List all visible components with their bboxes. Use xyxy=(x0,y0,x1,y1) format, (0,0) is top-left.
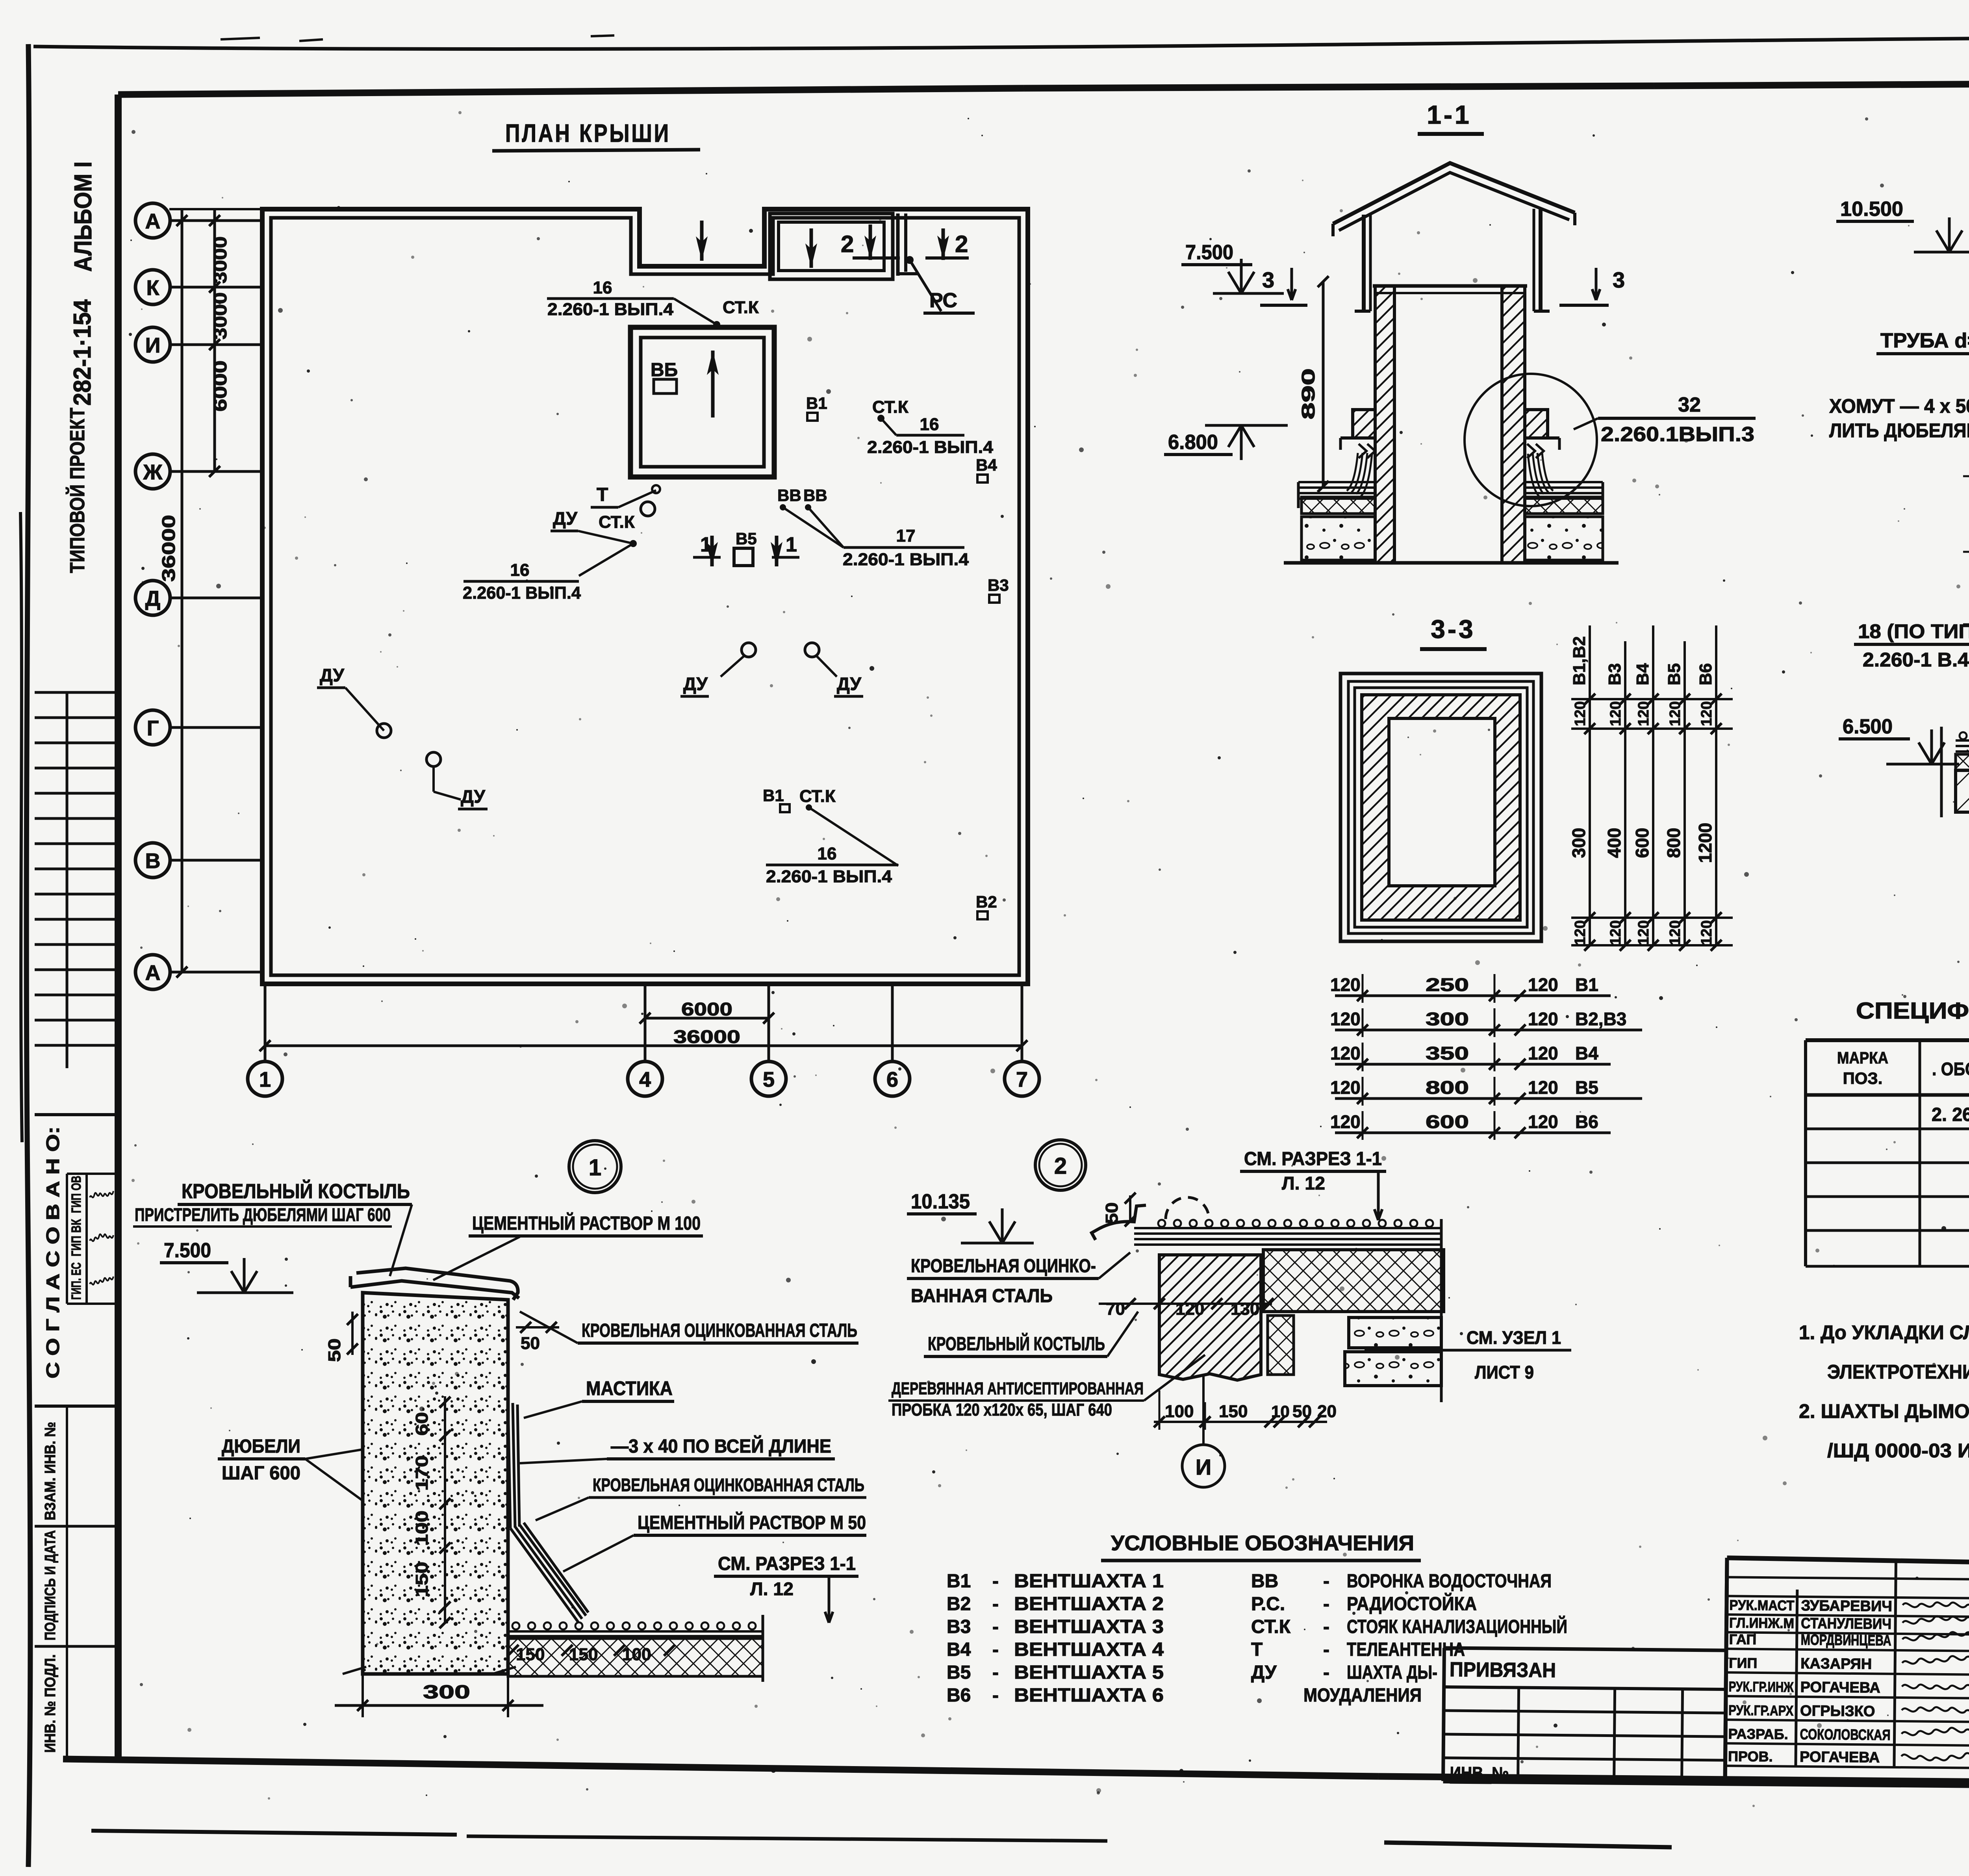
svg-text:В6: В6 xyxy=(947,1685,971,1706)
svg-text:1: 1 xyxy=(259,1068,271,1091)
svg-text:50: 50 xyxy=(325,1338,344,1362)
svg-text:Ж: Ж xyxy=(143,460,163,484)
detail circle 32 xyxy=(1465,374,1597,506)
svg-text:АЛЬБОМ I: АЛЬБОМ I xyxy=(70,161,97,272)
svg-text:В2,В3: В2,В3 xyxy=(1575,1009,1626,1029)
svg-text:ХОМУТ — 4 х 50 ПРИСТРЕ-: ХОМУТ — 4 х 50 ПРИСТРЕ- xyxy=(1829,395,1969,417)
detail 2 dim 50 vertical xyxy=(1129,1195,1131,1223)
svg-text:-: - xyxy=(992,1685,999,1706)
horizontal dim 6000 bottom xyxy=(645,1017,769,1020)
svg-text:300: 300 xyxy=(423,1682,470,1703)
svg-text:120: 120 xyxy=(1667,701,1683,726)
svg-text:РАЗРАБ.: РАЗРАБ. xyxy=(1728,1726,1788,1742)
title block bottom edge xyxy=(1443,1781,1969,1791)
svg-text:120: 120 xyxy=(1698,920,1715,945)
svg-text:36000: 36000 xyxy=(673,1026,740,1047)
section 1-1 shaft top lid xyxy=(1373,284,1527,288)
svg-text:КРОВЕЛЬНАЯ ОЦИНКО-: КРОВЕЛЬНАЯ ОЦИНКО- xyxy=(911,1256,1096,1277)
privyazan annex xyxy=(1444,1648,1726,1650)
section 1-1 shaft left wall hatched xyxy=(1375,286,1394,563)
section 1-1 roof deck right insulation xyxy=(1525,497,1603,514)
svg-text:ПРИСТРЕЛИТЬ ДЮБЕЛЯМИ ШАГ 600: ПРИСТРЕЛИТЬ ДЮБЕЛЯМИ ШАГ 600 xyxy=(135,1204,391,1225)
svg-text:600: 600 xyxy=(1632,828,1652,858)
svg-text:Г: Г xyxy=(147,716,159,740)
svg-text:ДУ: ДУ xyxy=(320,665,345,685)
svg-text:18 (ПО ТИПУ): 18 (ПО ТИПУ) xyxy=(1858,620,1969,642)
svg-text:В2: В2 xyxy=(947,1594,971,1614)
svg-text:С О Г Л А С О В А Н О:: С О Г Л А С О В А Н О: xyxy=(43,1126,63,1379)
svg-text:32: 32 xyxy=(1678,393,1701,416)
svg-text:РУК.ГР.ИНЖ: РУК.ГР.ИНЖ xyxy=(1729,1678,1794,1695)
section 1-1 left collar flange xyxy=(1353,410,1375,438)
svg-text:КРОВЕЛЬНАЯ ОЦИНКОВАННАЯ СТАЛЬ: КРОВЕЛЬНАЯ ОЦИНКОВАННАЯ СТАЛЬ xyxy=(593,1475,864,1495)
svg-text:5: 5 xyxy=(763,1068,775,1091)
svg-text:2: 2 xyxy=(1054,1153,1067,1179)
svg-text:СТ.К: СТ.К xyxy=(599,512,635,532)
svg-text:ПЛАН КРЫШИ: ПЛАН КРЫШИ xyxy=(505,119,671,147)
svg-text:В6: В6 xyxy=(1575,1111,1598,1132)
svg-text:ВВ: ВВ xyxy=(777,486,801,505)
svg-text:А: А xyxy=(145,961,161,985)
plan label 16/2.260-1 vyp.4 mid-left xyxy=(579,544,633,576)
svg-text:150: 150 xyxy=(1219,1402,1248,1421)
svg-text:1: 1 xyxy=(589,1155,601,1180)
svg-text:ЛИСТ 9: ЛИСТ 9 xyxy=(1475,1362,1534,1382)
svg-text:ГАП: ГАП xyxy=(1729,1631,1757,1648)
svg-text:МАРКА: МАРКА xyxy=(1837,1048,1888,1067)
horizontal dim 36000 bottom xyxy=(265,1045,1022,1047)
svg-text:ВОРОНКА ВОДОСТОЧНАЯ: ВОРОНКА ВОДОСТОЧНАЯ xyxy=(1347,1571,1552,1592)
svg-text:100: 100 xyxy=(412,1510,432,1546)
detail 1 roof insulation crosshatch xyxy=(508,1638,763,1676)
svg-text:И: И xyxy=(1196,1455,1211,1479)
svg-text:120: 120 xyxy=(1528,1111,1558,1132)
svg-text:10.135: 10.135 xyxy=(911,1190,970,1213)
paper left edge xyxy=(26,44,30,1867)
svg-text:СТ.К: СТ.К xyxy=(799,787,836,806)
svg-text:50: 50 xyxy=(1292,1402,1312,1421)
section mark 2 right xyxy=(942,228,945,260)
svg-text:ДЮБЕЛИ: ДЮБЕЛИ xyxy=(222,1436,300,1457)
svg-text:СОКОЛОВСКАЯ: СОКОЛОВСКАЯ xyxy=(1800,1726,1890,1744)
svg-text:ВВ: ВВ xyxy=(803,486,827,505)
left strip soglasovano block xyxy=(35,1113,118,1116)
svg-text:ВЕНТШАХТА 2: ВЕНТШАХТА 2 xyxy=(1014,1594,1164,1614)
svg-text:1: 1 xyxy=(700,533,712,556)
svg-text:2: 2 xyxy=(955,231,968,257)
svg-text:В6: В6 xyxy=(1696,663,1715,685)
svg-text:-: - xyxy=(1323,1594,1329,1614)
svg-text:ПОДПИСЬ И ДАТА: ПОДПИСЬ И ДАТА xyxy=(42,1530,59,1640)
section 1-1 roof deck left layers xyxy=(1298,481,1375,483)
title block outline xyxy=(1727,1558,1969,1572)
section 1-1 roof cap gable xyxy=(1333,163,1575,224)
arrow in notch xyxy=(700,221,704,261)
svg-text:КАЗАРЯН: КАЗАРЯН xyxy=(1800,1655,1872,1673)
svg-text:ПРОБКА 120 х120х 65, ШАГ 640: ПРОБКА 120 х120х 65, ШАГ 640 xyxy=(892,1400,1112,1420)
detail 1 break marks xyxy=(343,1667,516,1674)
svg-text:-: - xyxy=(992,1662,999,1683)
svg-text:130: 130 xyxy=(1231,1299,1259,1319)
svg-text:-: - xyxy=(992,1616,999,1637)
svg-text:ДУ: ДУ xyxy=(461,786,486,807)
svg-text:250: 250 xyxy=(1426,974,1469,995)
right top partition on plan xyxy=(896,213,900,276)
section 3-3 dim ladder verticals xyxy=(1589,625,1591,945)
frame top line xyxy=(118,88,1024,95)
svg-text:120: 120 xyxy=(1330,1043,1361,1063)
svg-text:В1: В1 xyxy=(1575,974,1598,995)
svg-text:ЦЕМЕНТНЫЙ РАСТВОР М 50: ЦЕМЕНТНЫЙ РАСТВОР М 50 xyxy=(638,1512,866,1533)
svg-text:120: 120 xyxy=(1635,920,1652,945)
svg-text:В3: В3 xyxy=(947,1616,971,1637)
svg-text:282-1·154: 282-1·154 xyxy=(69,299,96,406)
svg-text:ГИП ВК: ГИП ВК xyxy=(69,1219,84,1256)
svg-text:ВЕНТШАХТА 3: ВЕНТШАХТА 3 xyxy=(1014,1616,1164,1637)
svg-text:РС: РС xyxy=(929,289,957,312)
svg-text:1-1: 1-1 xyxy=(1427,100,1471,129)
svg-text:/ШД 0000-03 И ШД 0000-06/: /ШД 0000-03 И ШД 0000-06/ xyxy=(1827,1440,1969,1462)
detail 2 top flashing and dashed cap xyxy=(1166,1197,1209,1219)
svg-text:КРОВЕЛЬНАЯ ОЦИНКОВАННАЯ СТАЛЬ: КРОВЕЛЬНАЯ ОЦИНКОВАННАЯ СТАЛЬ xyxy=(582,1320,857,1341)
svg-text:. ОБОЗНАЧЕНИЕ: . ОБОЗНАЧЕНИЕ xyxy=(1932,1059,1969,1079)
svg-text:В2: В2 xyxy=(976,893,997,911)
svg-text:В4: В4 xyxy=(1575,1043,1598,1063)
svg-text:ГИП ОВ: ГИП ОВ xyxy=(69,1176,84,1213)
svg-text:120: 120 xyxy=(1330,1111,1361,1132)
svg-text:1. До УКЛАДКИ СЛОЯ УТЕПЛИТ: 1. До УКЛАДКИ СЛОЯ УТЕПЛИТЕЛЯ НЕОБХОДИМО… xyxy=(1799,1321,1969,1343)
svg-text:400: 400 xyxy=(1604,828,1624,858)
lower roof left of wall 2-2 xyxy=(1956,739,1969,742)
svg-text:РОГАЧЕВА: РОГАЧЕВА xyxy=(1800,1679,1880,1696)
svg-text:СМ. РАЗРЕЗ 1-1: СМ. РАЗРЕЗ 1-1 xyxy=(1244,1149,1382,1169)
svg-text:СТ.К: СТ.К xyxy=(1251,1616,1291,1637)
section 3-3 inner duct hole xyxy=(1389,718,1495,886)
svg-text:СМ. РАЗРЕЗ 1-1: СМ. РАЗРЕЗ 1-1 xyxy=(718,1553,856,1574)
svg-text:36000: 36000 xyxy=(158,515,179,582)
svg-text:2.260-1 В.4: 2.260-1 В.4 xyxy=(1863,649,1969,671)
svg-text:2.260-1 ВЫП.4: 2.260-1 ВЫП.4 xyxy=(547,300,674,319)
svg-text:7.500: 7.500 xyxy=(164,1239,211,1262)
svg-text:120: 120 xyxy=(1572,701,1589,726)
wall right face apron curve xyxy=(508,1402,588,1622)
svg-text:МОРДВИНЦЕВА: МОРДВИНЦЕВА xyxy=(1801,1632,1891,1649)
svg-text:16: 16 xyxy=(818,844,837,863)
svg-text:10.500: 10.500 xyxy=(1840,198,1903,221)
svg-text:СТ.К: СТ.К xyxy=(872,397,908,417)
detail 1 wall inner dim chain xyxy=(444,1396,446,1623)
svg-text:2: 2 xyxy=(841,231,854,257)
detail 2 insulation crosshatch xyxy=(1263,1250,1444,1312)
svg-text:В5: В5 xyxy=(1665,663,1684,685)
detail 1 roof deck gravel xyxy=(512,1622,519,1629)
svg-text:120: 120 xyxy=(1698,701,1715,726)
lower insulation band 2-2 xyxy=(1956,754,1969,770)
signature table xyxy=(1725,1558,1727,1783)
detail 2 gravel row xyxy=(1158,1220,1165,1227)
detail 2 dims 70 120 130 xyxy=(1099,1303,1272,1305)
svg-text:170: 170 xyxy=(412,1455,432,1491)
vertical dimension line 36000 xyxy=(181,208,184,972)
svg-text:6000: 6000 xyxy=(210,360,230,412)
svg-text:ШАГ 600: ШАГ 600 xyxy=(222,1463,300,1484)
svg-text:В4: В4 xyxy=(947,1639,971,1660)
svg-text:17: 17 xyxy=(896,526,916,546)
svg-text:Л. 12: Л. 12 xyxy=(750,1579,794,1599)
spec table grid xyxy=(1806,1038,1969,1042)
svg-text:2.260-1 ВЫП.4: 2.260-1 ВЫП.4 xyxy=(766,867,892,886)
section 1-1 cap walls xyxy=(1362,215,1366,311)
svg-text:СТ.К: СТ.К xyxy=(723,298,759,317)
svg-text:ГИП: ГИП xyxy=(1729,1655,1758,1671)
svg-text:ТЕЛЕАНТЕННА: ТЕЛЕАНТЕННА xyxy=(1347,1639,1465,1660)
svg-text:3000: 3000 xyxy=(210,292,230,340)
svg-text:МОУДАЛЕНИЯ: МОУДАЛЕНИЯ xyxy=(1303,1685,1422,1706)
section 1-1 roof deck right layers xyxy=(1525,481,1603,483)
svg-text:ТРУБА d=70: ТРУБА d=70 xyxy=(1880,329,1969,352)
svg-text:В4: В4 xyxy=(976,456,997,474)
detail 1 parapet wall stippled xyxy=(363,1293,508,1674)
detail 1 circle xyxy=(569,1141,621,1193)
svg-text:РУК.ГР.АРХ: РУК.ГР.АРХ xyxy=(1728,1702,1793,1718)
svg-text:Р.С.: Р.С. xyxy=(1251,1594,1285,1614)
svg-text:К: К xyxy=(146,276,160,300)
svg-text:А: А xyxy=(145,210,161,233)
svg-text:120: 120 xyxy=(1607,701,1624,726)
svg-text:ОГРЫЗКО: ОГРЫЗКО xyxy=(1800,1703,1875,1720)
svg-text:2.260-1 ВЫП.4: 2.260-1 ВЫП.4 xyxy=(843,550,969,569)
detail 2 wood block hatched xyxy=(1159,1255,1261,1380)
svg-text:6.500: 6.500 xyxy=(1843,715,1893,738)
svg-text:3: 3 xyxy=(1613,267,1625,292)
svg-text:2.260.1ВЫП.3: 2.260.1ВЫП.3 xyxy=(1601,423,1754,446)
svg-text:СМ. УЗЕЛ 1: СМ. УЗЕЛ 1 xyxy=(1467,1327,1561,1348)
section 1-1 shaft right wall hatched xyxy=(1502,286,1525,563)
svg-text:800: 800 xyxy=(1663,828,1684,858)
section 1-1 dim 890 xyxy=(1322,282,1325,486)
svg-text:В1: В1 xyxy=(806,394,827,412)
detail 1 parapet cap xyxy=(350,1268,519,1300)
roof plan outline inner xyxy=(271,218,1019,975)
svg-text:ДУ: ДУ xyxy=(553,508,578,529)
svg-text:120: 120 xyxy=(1330,1009,1361,1029)
svg-text:ДУ: ДУ xyxy=(837,674,862,694)
svg-text:ШАХТА ДЫ-: ШАХТА ДЫ- xyxy=(1347,1662,1437,1683)
svg-text:УСЛОВНЫЕ ОБОЗНАЧЕНИЯ: УСЛОВНЫЕ ОБОЗНАЧЕНИЯ xyxy=(1111,1531,1414,1555)
paper bottom partial line xyxy=(91,1831,457,1835)
svg-text:В5: В5 xyxy=(947,1662,971,1683)
roof plan outline outer xyxy=(262,209,1028,984)
detail 1 bottom dim 300 xyxy=(362,1674,364,1717)
svg-text:В3: В3 xyxy=(1605,663,1624,685)
svg-text:ВЕНТШАХТА 5: ВЕНТШАХТА 5 xyxy=(1014,1662,1164,1683)
svg-text:3000: 3000 xyxy=(210,236,230,284)
detail 2 roof surface lines xyxy=(1134,1227,1441,1229)
paper top edge xyxy=(33,37,1969,49)
svg-text:120: 120 xyxy=(1607,920,1624,945)
svg-text:ЛИТЬ ДЮБЕЛЯМИ: ЛИТЬ ДЮБЕЛЯМИ xyxy=(1829,419,1969,442)
svg-text:3: 3 xyxy=(1262,267,1274,292)
svg-text:ЦЕМЕНТНЫЙ РАСТВОР М 100: ЦЕМЕНТНЫЙ РАСТВОР М 100 xyxy=(472,1212,701,1234)
svg-text:В5: В5 xyxy=(736,529,757,548)
svg-text:1200: 1200 xyxy=(1695,823,1715,863)
svg-text:Д: Д xyxy=(145,587,160,610)
svg-text:ДУ: ДУ xyxy=(683,674,708,694)
svg-text:60: 60 xyxy=(412,1412,432,1436)
arrow in vent chamber xyxy=(711,351,715,418)
section 3-3 hatched ring xyxy=(1362,695,1520,920)
svg-text:2.260-1 ВЫП.4: 2.260-1 ВЫП.4 xyxy=(463,583,581,603)
svg-text:120: 120 xyxy=(1667,920,1683,945)
svg-text:Т: Т xyxy=(597,484,608,505)
svg-text:2. ШАХТЫ ДЫМОУДАЛЕНИЯ ПРИНЯТ: 2. ШАХТЫ ДЫМОУДАЛЕНИЯ ПРИНЯТЬ ПО СЕРИИ 1… xyxy=(1799,1400,1969,1422)
svg-text:350: 350 xyxy=(1426,1043,1469,1063)
detail 2 right cut line xyxy=(1440,1219,1443,1402)
svg-text:-: - xyxy=(1323,1571,1329,1592)
svg-text:120: 120 xyxy=(1528,1043,1558,1063)
radio-post RS leader and label xyxy=(906,256,914,264)
svg-text:РОГАЧЕВА: РОГАЧЕВА xyxy=(1800,1749,1880,1766)
svg-text:150: 150 xyxy=(412,1562,432,1597)
plan DU circles middle xyxy=(742,643,756,657)
grid bubbles bottom row xyxy=(248,1061,282,1096)
section 1-1 right collar flange xyxy=(1525,410,1548,438)
svg-text:120: 120 xyxy=(1330,1077,1361,1098)
svg-text:ВБ: ВБ xyxy=(651,360,678,380)
section 3-3 ladder crossbars xyxy=(1571,698,1733,700)
svg-text:МАСТИКА: МАСТИКА xyxy=(586,1377,673,1399)
svg-text:20: 20 xyxy=(1317,1402,1337,1421)
svg-text:-: - xyxy=(1323,1616,1329,1637)
svg-text:В4: В4 xyxy=(1633,663,1652,685)
svg-text:300: 300 xyxy=(1426,1009,1469,1029)
svg-text:1: 1 xyxy=(786,533,797,556)
section 3-3 duct outer frames xyxy=(1340,674,1541,941)
svg-text:РАДИОСТОЙКА: РАДИОСТОЙКА xyxy=(1347,1593,1477,1614)
svg-text:6000: 6000 xyxy=(681,999,732,1019)
svg-text:120: 120 xyxy=(1635,701,1652,726)
svg-text:—3 х 40 ПО ВСЕЙ ДЛИНЕ: —3 х 40 ПО ВСЕЙ ДЛИНЕ xyxy=(611,1435,831,1457)
svg-text:50: 50 xyxy=(521,1334,540,1353)
svg-text:СТАНУЛЕВИЧ: СТАНУЛЕВИЧ xyxy=(1801,1615,1891,1633)
svg-text:ВЕНТШАХТА 1: ВЕНТШАХТА 1 xyxy=(1014,1571,1164,1592)
svg-text:120: 120 xyxy=(1528,1077,1558,1098)
svg-text:ГИП. ЕС: ГИП. ЕС xyxy=(69,1262,84,1300)
svg-text:РУК.МАСТ: РУК.МАСТ xyxy=(1729,1597,1794,1613)
svg-text:2. 260 - 1 вып. 3: 2. 260 - 1 вып. 3 xyxy=(1932,1104,1969,1125)
svg-text:ПРОВ.: ПРОВ. xyxy=(1728,1748,1773,1765)
section 1-1 ground line xyxy=(1284,561,1619,565)
svg-text:ВЕНТШАХТА 4: ВЕНТШАХТА 4 xyxy=(1014,1639,1164,1660)
svg-text:7.500: 7.500 xyxy=(1185,241,1233,264)
svg-text:СПЕЦИФИКАЦИЯ ЭЛЕМЕНТОВ КРЫШ: СПЕЦИФИКАЦИЯ ЭЛЕМЕНТОВ КРЫШИ xyxy=(1856,998,1969,1024)
svg-text:ВЕНТШАХТА 6: ВЕНТШАХТА 6 xyxy=(1014,1685,1164,1706)
svg-text:120: 120 xyxy=(1175,1299,1204,1319)
svg-text:890: 890 xyxy=(1298,368,1318,419)
svg-text:120: 120 xyxy=(1528,974,1558,995)
svg-text:КРОВЕЛЬНЫЙ КОСТЫЛЬ: КРОВЕЛЬНЫЙ КОСТЫЛЬ xyxy=(182,1180,410,1203)
detail 2 bottom dims 100 150 10 50 20 xyxy=(1154,1421,1327,1423)
frame bottom line xyxy=(63,1759,1378,1776)
vent chamber on plan xyxy=(630,327,774,477)
scan speckles xyxy=(1097,1791,1100,1794)
plan label 17/2.260-1 vyp.4 xyxy=(844,546,964,549)
svg-text:ИНВ. № ПОДЛ.: ИНВ. № ПОДЛ. xyxy=(42,1654,59,1753)
svg-text:6: 6 xyxy=(886,1068,898,1091)
detail 2 circle xyxy=(1035,1140,1086,1190)
svg-text:ВЗАМ. ИНВ. №: ВЗАМ. ИНВ. № xyxy=(42,1422,59,1520)
svg-text:16: 16 xyxy=(510,560,530,580)
svg-text:150: 150 xyxy=(516,1645,545,1664)
svg-text:В3: В3 xyxy=(988,576,1009,594)
svg-text:ПОЗ.: ПОЗ. xyxy=(1843,1069,1883,1087)
svg-text:В1: В1 xyxy=(763,786,784,805)
vertical dimension line 3000/3000/6000 xyxy=(213,208,216,471)
svg-text:800: 800 xyxy=(1426,1077,1469,1098)
detail 2 concrete panel upper xyxy=(1349,1317,1441,1348)
svg-text:600: 600 xyxy=(1426,1111,1469,1132)
svg-text:ТИПОВОЙ ПРОЕКТ: ТИПОВОЙ ПРОЕКТ xyxy=(66,408,89,573)
svg-text:В5: В5 xyxy=(1575,1077,1598,1098)
svg-text:И: И xyxy=(145,334,161,357)
svg-text:-: - xyxy=(1323,1639,1329,1660)
svg-text:120: 120 xyxy=(1528,1009,1558,1029)
svg-text:300: 300 xyxy=(1569,828,1589,858)
duct size table rows xyxy=(1335,995,1611,997)
svg-text:Т: Т xyxy=(1251,1639,1263,1660)
svg-text:ВВ: ВВ xyxy=(1251,1571,1278,1592)
svg-text:4: 4 xyxy=(639,1068,651,1091)
svg-text:КРОВЕЛЬНЫЙ КОСТЫЛЬ: КРОВЕЛЬНЫЙ КОСТЫЛЬ xyxy=(928,1333,1105,1355)
svg-text:Л. 12: Л. 12 xyxy=(1282,1173,1325,1193)
section 1-1 roof deck left concrete xyxy=(1302,517,1375,560)
svg-text:-: - xyxy=(1323,1662,1329,1683)
svg-text:120: 120 xyxy=(1572,920,1589,945)
left strip small grid upper xyxy=(66,692,69,1068)
svg-text:ЗУБАРЕВИЧ: ЗУБАРЕВИЧ xyxy=(1801,1598,1892,1615)
svg-text:3-3: 3-3 xyxy=(1431,614,1475,644)
grid bubbles left column xyxy=(135,203,170,238)
svg-text:В1,В2: В1,В2 xyxy=(1570,636,1589,685)
arrow in vent room 2 xyxy=(810,228,813,268)
section 1-1 roof deck left insulation xyxy=(1302,497,1375,514)
svg-text:120: 120 xyxy=(1330,974,1361,995)
svg-text:100: 100 xyxy=(622,1645,651,1664)
svg-text:7: 7 xyxy=(1016,1068,1028,1091)
svg-text:-: - xyxy=(992,1594,999,1614)
svg-text:150: 150 xyxy=(569,1645,598,1664)
svg-text:-: - xyxy=(992,1639,999,1660)
svg-text:10: 10 xyxy=(1271,1402,1290,1421)
svg-text:16: 16 xyxy=(920,415,939,434)
vent room 2 on plan xyxy=(770,213,893,279)
svg-text:6.800: 6.800 xyxy=(1168,431,1218,454)
svg-text:ВАННАЯ СТАЛЬ: ВАННАЯ СТАЛЬ xyxy=(911,1286,1053,1306)
svg-text:СТОЯК КАНАЛИЗАЦИОННЫЙ: СТОЯК КАНАЛИЗАЦИОННЫЙ xyxy=(1347,1616,1567,1637)
frame left line xyxy=(115,95,122,1759)
svg-text:16: 16 xyxy=(593,278,612,297)
svg-text:2.260-1 ВЫП.4: 2.260-1 ВЫП.4 xyxy=(867,438,994,457)
svg-text:70: 70 xyxy=(1106,1299,1125,1319)
svg-text:ПРИВЯЗАН: ПРИВЯЗАН xyxy=(1450,1658,1556,1682)
dash-dot leaders to clamps xyxy=(1963,475,1969,477)
lower concrete slab under wall xyxy=(1956,770,1969,812)
svg-text:В: В xyxy=(145,849,161,873)
section 1-1 roof deck right concrete xyxy=(1525,517,1603,560)
svg-text:В1: В1 xyxy=(947,1571,971,1592)
detail 2 vertical insulation strip xyxy=(1268,1316,1294,1375)
detail 2 concrete panel lower xyxy=(1345,1352,1441,1386)
